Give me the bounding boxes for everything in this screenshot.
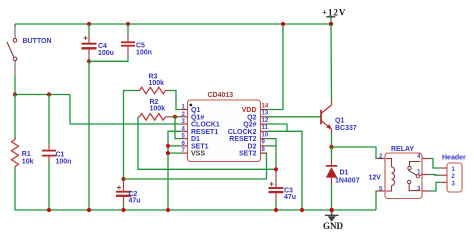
wire R3 left down to C2 node — [123, 91, 126, 180]
capacitor C3 — [269, 169, 297, 210]
header J1 box — [447, 163, 462, 192]
wire Q2 to Q1 base — [267, 116, 322, 118]
node B junction (C1) — [47, 92, 51, 96]
svg-text:D2: D2 — [248, 143, 257, 150]
wire D2 stub to C3 vertical — [267, 145, 277, 147]
junction C4 bottom — [87, 59, 91, 63]
wire RESET1 to ground line — [168, 131, 181, 210]
svg-text:13: 13 — [262, 111, 269, 117]
wire Q1# down to D1 pin — [175, 117, 181, 139]
svg-text:Q1: Q1 — [191, 107, 200, 114]
relay coil — [386, 159, 395, 192]
relay pin numbers — [379, 154, 421, 193]
svg-text:100n: 100n — [136, 49, 152, 56]
IC U1 CD4013 box — [188, 100, 261, 162]
svg-text:C1: C1 — [56, 151, 65, 158]
diode D1 1N4007 — [326, 159, 360, 184]
svg-text:9: 9 — [262, 140, 266, 146]
capacitor C5 — [121, 24, 152, 56]
resistor R3 — [124, 74, 168, 94]
svg-text:RESET2: RESET2 — [229, 136, 256, 143]
svg-text:14: 14 — [262, 103, 269, 109]
svg-text:RESET1: RESET1 — [191, 129, 218, 136]
ground rail wire — [48, 209, 376, 211]
svg-text:12: 12 — [262, 118, 269, 124]
svg-text:VDD: VDD — [242, 107, 257, 114]
wire R2 left down to C3 node — [138, 117, 276, 170]
wire Q2# down to CLOCK2 wire — [267, 124, 288, 131]
svg-text:100k: 100k — [149, 80, 165, 87]
capacitor C1 — [42, 144, 71, 166]
relay K1 box — [385, 153, 422, 199]
svg-text:Q1#: Q1# — [191, 114, 204, 121]
svg-text:100u: 100u — [98, 50, 114, 57]
svg-text:2: 2 — [379, 154, 383, 160]
svg-text:Header: Header — [442, 155, 466, 162]
svg-text:D1: D1 — [340, 170, 349, 177]
IC pin1 marker dot — [189, 104, 192, 107]
wire R3 right to IC pin1 — [168, 91, 181, 110]
wire node E to relay pin2 — [332, 147, 378, 159]
+12V net flag — [322, 7, 346, 26]
junction C5 top — [126, 22, 130, 26]
wire node E to D1 — [331, 147, 333, 159]
svg-text:Q1: Q1 — [335, 117, 344, 124]
wire C4 bottom to ground rail — [88, 61, 90, 210]
node A junction — [13, 92, 17, 96]
wire D1 to ground rail — [331, 184, 333, 210]
relay pin stubs — [377, 159, 430, 192]
ground symbol GND — [323, 210, 344, 231]
svg-text:47u: 47u — [284, 194, 296, 201]
wire node A to node B — [15, 94, 70, 96]
junction C4 top — [87, 22, 91, 26]
button S1 — [7, 25, 52, 75]
svg-text:100n: 100n — [56, 159, 72, 166]
svg-text:BC337: BC337 — [335, 125, 357, 132]
svg-text:VSS: VSS — [191, 151, 205, 158]
resistor R2 — [138, 99, 170, 120]
wire relay pin5 to ground rail — [376, 191, 377, 210]
capacitor C2 — [116, 177, 141, 210]
IC right pin stubs — [261, 110, 267, 154]
svg-text:5: 5 — [379, 187, 383, 193]
wire relay pin1 to header pin2 — [430, 174, 440, 177]
svg-text:+12V: +12V — [322, 7, 346, 17]
wire CLOCK2 to ground rail — [267, 131, 303, 210]
svg-text:8: 8 — [262, 147, 266, 153]
wire C1 to ground rail — [48, 162, 50, 210]
wire relay pin3 to header pin3 — [430, 182, 440, 191]
wire VDD to top rail — [267, 24, 284, 110]
junction R2 right / Q1# — [173, 115, 177, 119]
svg-text:12V: 12V — [369, 175, 382, 182]
wire R1 to ground rail — [15, 169, 48, 211]
svg-text:D1: D1 — [191, 136, 200, 143]
svg-text:BUTTON: BUTTON — [23, 38, 52, 45]
top +12V rail wire — [15, 23, 331, 25]
GND junction — [329, 208, 334, 213]
svg-text:RELAY: RELAY — [391, 146, 414, 153]
wire R2 right to IC pin2 — [170, 116, 181, 118]
svg-text:SET1: SET1 — [191, 143, 209, 150]
header pin stubs — [440, 168, 447, 182]
capacitor C4 — [82, 24, 114, 60]
svg-text:11: 11 — [262, 125, 269, 131]
IC right pin names — [228, 107, 257, 158]
svg-text:GND: GND — [323, 221, 344, 231]
wire SET1 stub — [168, 145, 181, 147]
wire C1 top — [48, 95, 50, 145]
wire node A to R1 — [14, 95, 16, 140]
svg-text:R1: R1 — [22, 151, 31, 158]
node E junction — [329, 145, 333, 149]
junction C3 top — [274, 167, 278, 171]
svg-text:CD4013: CD4013 — [208, 92, 234, 99]
svg-text:10: 10 — [262, 132, 269, 138]
svg-text:10k: 10k — [22, 159, 34, 166]
wire C2 node to SET2 — [124, 153, 267, 179]
relay contact — [408, 162, 423, 191]
wire +12V rail to Q1 collector — [330, 24, 333, 101]
svg-text:100k: 100k — [150, 106, 166, 113]
IC left pin names — [191, 107, 220, 158]
wire left rail top segment — [14, 24, 16, 27]
wire Q1 emitter to node E — [331, 133, 333, 147]
wire VSS stub — [168, 152, 181, 154]
wire clock: node to CLOCK1 — [70, 95, 181, 125]
svg-text:CLOCK2: CLOCK2 — [228, 129, 257, 136]
svg-text:47u: 47u — [129, 198, 141, 205]
wire RESET2 down to C3 node — [267, 139, 277, 170]
wire C4 bottom to C5 bottom — [89, 56, 128, 61]
svg-text:CLOCK1: CLOCK1 — [191, 122, 220, 129]
wire relay pin4 to header pin1 — [430, 159, 440, 169]
svg-text:Q2: Q2 — [247, 114, 256, 121]
transistor Q1 BC337 — [321, 101, 357, 133]
IC left pin numbers — [181, 105, 185, 155]
wire button to node A — [14, 75, 16, 95]
svg-text:Q2#: Q2# — [243, 122, 256, 129]
IC left pin stubs — [181, 110, 188, 154]
svg-text:1N4007: 1N4007 — [335, 177, 360, 184]
svg-text:SET2: SET2 — [239, 151, 257, 158]
header pin numbers — [452, 167, 456, 187]
resistor R1 — [12, 137, 34, 169]
IC right pin numbers — [262, 103, 269, 153]
